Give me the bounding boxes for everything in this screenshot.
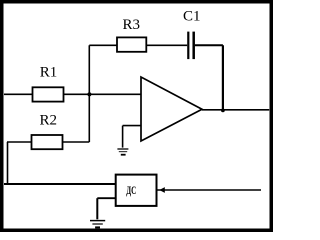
svg-text:R2: R2 (40, 112, 58, 128)
svg-text:R3: R3 (123, 17, 141, 33)
svg-text:R1: R1 (40, 65, 58, 81)
svg-text:ДС: ДС (126, 183, 136, 197)
svg-text:C1: C1 (183, 9, 201, 25)
